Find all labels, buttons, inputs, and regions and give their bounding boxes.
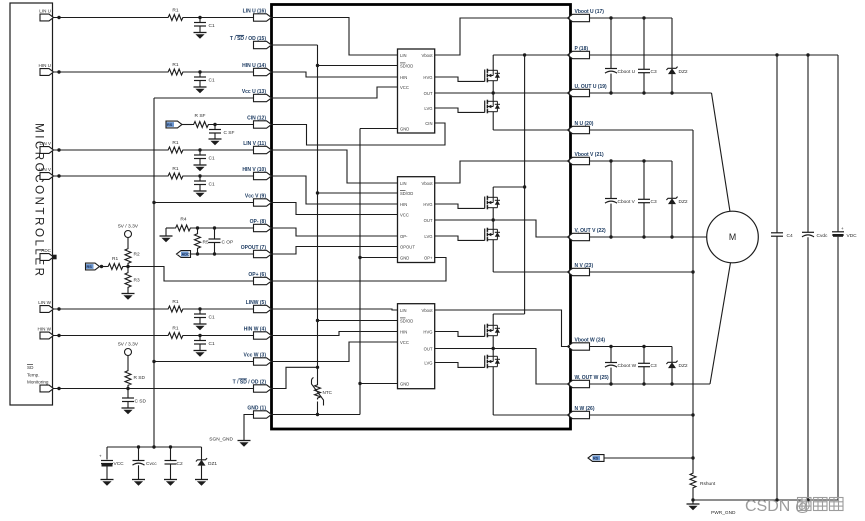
wire Rshunt to PWR rail	[692, 490, 694, 501]
svg-text:HIN: HIN	[400, 202, 407, 207]
svg-text:DZ2: DZ2	[679, 199, 688, 205]
junction NTC / GND wire	[316, 413, 319, 416]
svg-text:VCC: VCC	[400, 212, 409, 217]
junction DZ2 V bottom	[670, 235, 673, 238]
IC pin N U (20)	[568, 126, 590, 133]
wire OUT W diagonal to motor	[710, 263, 731, 384]
svg-text:N V (23): N V (23)	[575, 263, 594, 269]
svg-text:OPOUT: OPOUT	[400, 244, 415, 249]
IC pin W, OUT W (25)	[568, 380, 590, 387]
wire RS to R1	[100, 266, 107, 268]
svg-text:C2: C2	[177, 461, 183, 467]
IC pin GND (1)	[254, 411, 272, 418]
ground (VCC cap)	[101, 479, 114, 481]
wire LIN U mcu to R1	[54, 17, 167, 19]
wire RS to R SF	[182, 124, 192, 126]
svg-text:DZ1: DZ1	[208, 461, 217, 467]
junction P/C4	[775, 53, 778, 56]
junction SD bus block V	[316, 191, 319, 194]
wire LINW (5) route	[272, 309, 398, 310]
capacitor C1 (HIN V row)	[199, 176, 201, 181]
svg-text:LIN V (11): LIN V (11)	[243, 141, 266, 147]
driver block U	[398, 49, 435, 133]
wire R1 to pin (HIN V)	[185, 175, 254, 177]
resistor R1 (HIN W row)	[167, 333, 185, 339]
svg-text:Vboot: Vboot	[422, 181, 434, 186]
ground (C2)	[164, 479, 177, 481]
svg-text:GND: GND	[400, 381, 409, 386]
mcu pin SD	[40, 385, 54, 392]
svg-text:R2: R2	[134, 252, 140, 258]
wire LINW mcu to R1	[54, 308, 167, 310]
junction C3 W top	[642, 345, 645, 348]
svg-text:LVG: LVG	[424, 234, 432, 239]
mcu pin LIN U	[40, 14, 54, 21]
svg-text:V, OUT V (22): V, OUT V (22)	[575, 228, 607, 234]
IC pin HIN W (4)	[254, 332, 272, 339]
svg-text:HIN: HIN	[400, 75, 407, 80]
transistor Q5 (W high-side)	[484, 325, 486, 337]
svg-text:Vboot U (17): Vboot U (17)	[575, 9, 605, 15]
wire RS to N bus	[604, 457, 693, 459]
wire LVG W route	[435, 363, 485, 368]
node C SF junction	[213, 123, 216, 126]
junction SD bus block U	[316, 64, 319, 67]
wire LIN V (11) route	[272, 150, 398, 183]
ground SGN_GND	[238, 440, 251, 442]
junction GND bus block W	[358, 382, 361, 385]
ground (C SD)	[122, 407, 135, 409]
svg-text:R1: R1	[172, 326, 178, 332]
wire ADC to OPOUT pin	[191, 253, 254, 255]
capacitor C3 (U)	[643, 18, 645, 69]
junction at mcu pin SD	[57, 387, 60, 390]
wire Q1 source to OUT U	[492, 81, 494, 93]
svg-text:5V / 3.3V: 5V / 3.3V	[118, 342, 139, 348]
svg-text:C3: C3	[651, 363, 657, 369]
node C1 junction (LIN U row)	[198, 16, 201, 19]
wire OUT U diagonal to motor	[712, 93, 731, 212]
svg-text:R1: R1	[172, 299, 178, 305]
wire SD mcu to pin2	[54, 388, 254, 390]
battery VDC	[837, 55, 839, 232]
transistor Q2 (U low-side)	[484, 101, 486, 113]
wire Vcc U pin to bus	[154, 97, 254, 99]
svg-text:PWR_GND: PWR_GND	[711, 510, 736, 516]
junction SD bus / pin2 link	[316, 366, 319, 369]
wire R4 lead to ground	[165, 228, 167, 236]
svg-text:OP+ (6): OP+ (6)	[248, 272, 266, 278]
junction C3 U top	[642, 16, 645, 19]
svg-text:N U (20): N U (20)	[575, 121, 594, 127]
wire supply to R2	[127, 238, 129, 248]
mcu pin HIN W	[40, 332, 54, 339]
svg-text:HIN U (14): HIN U (14)	[242, 63, 266, 69]
IC pin Vboot W (24)	[568, 343, 590, 350]
svg-text:HIN: HIN	[400, 329, 407, 334]
capacitor C SD	[127, 389, 129, 399]
wire SD/OD to block W	[318, 320, 398, 322]
SD/OD bus vertical	[317, 45, 319, 367]
driver block W	[398, 304, 435, 389]
wire SD/OD to block V	[318, 192, 398, 194]
svg-text:LVG: LVG	[424, 360, 432, 365]
wire Vboot U internal	[435, 18, 570, 55]
ground (C1 LINW row)	[194, 323, 207, 325]
svg-text:VDC: VDC	[847, 233, 858, 239]
svg-text:DZ2: DZ2	[679, 363, 688, 369]
node R5 bottom junction	[196, 252, 199, 255]
junction GND bus block V	[358, 256, 361, 259]
wire Q6 source to N W	[492, 367, 494, 415]
IC pin P (18)	[568, 51, 590, 58]
junction at mcu pin LIN V	[57, 148, 60, 151]
overline SD (T / SD / OD (15))	[236, 34, 244, 36]
capacitor C1 (LINW row)	[199, 309, 201, 314]
mcu pin LIN W	[40, 306, 54, 313]
junction rail/Vcc bus	[152, 445, 155, 448]
wire LVG V route	[435, 236, 485, 240]
resistor R4	[174, 225, 192, 231]
wire P (18) rail	[590, 54, 839, 56]
IC pin OP+ (6)	[254, 277, 272, 284]
svg-text:R1: R1	[172, 8, 178, 14]
svg-text:R5: R5	[203, 240, 209, 246]
ground (Cvcc)	[132, 479, 145, 481]
mcu pin HIN V	[40, 173, 54, 180]
IC pin Vcc V (9)	[254, 199, 272, 206]
junction C3 V bottom	[642, 235, 645, 238]
svg-text:C3: C3	[651, 69, 657, 75]
resistor R SD	[125, 369, 131, 387]
wire HIN U (14) route	[272, 72, 398, 77]
wire GND bus to block V	[360, 257, 398, 259]
IC pin OPOUT (7)	[254, 250, 272, 257]
svg-text:Vboot W (24): Vboot W (24)	[575, 338, 606, 344]
junction N/RS	[691, 456, 694, 459]
node C1 junction (HIN W row)	[198, 334, 201, 337]
IC pin N V (23)	[568, 268, 590, 275]
svg-text:HIN W: HIN W	[37, 327, 51, 332]
junction at mcu pin HIN V	[57, 174, 60, 177]
svg-text:R1: R1	[172, 140, 178, 146]
capacitor C OP	[214, 228, 216, 239]
junction PWR/C4	[775, 498, 778, 501]
svg-text:U, OUT U (19): U, OUT U (19)	[575, 84, 608, 90]
wire OUT W internal	[435, 349, 570, 385]
svg-text:HIN U: HIN U	[38, 63, 51, 68]
capacitor C2	[170, 447, 172, 461]
zener diode DZ1	[201, 447, 203, 460]
svg-text:SD/OD: SD/OD	[400, 318, 413, 323]
svg-text:Vcc W (3): Vcc W (3)	[243, 353, 266, 359]
svg-text:Cboot U: Cboot U	[618, 69, 636, 75]
zener diode DZ2 (W)	[671, 347, 673, 363]
capacitor C3 (W)	[643, 347, 645, 364]
junction OUT U node	[492, 91, 495, 94]
resistor R SF	[192, 122, 210, 128]
capacitor VCC (electrolytic)	[106, 447, 108, 460]
wire R1 to pin (HIN U)	[185, 71, 254, 73]
ground (C1 LIN U row)	[194, 32, 207, 34]
svg-text:C3: C3	[651, 199, 657, 205]
supply 5V/3.3V (divider)	[125, 231, 132, 238]
wire R1 to divider node	[125, 266, 129, 268]
zener diode DZ2 (V)	[671, 161, 673, 198]
wire Vcc V pin to bus	[154, 202, 254, 204]
mcu pin ADC	[40, 254, 54, 261]
svg-text:Cboot V: Cboot V	[618, 199, 636, 205]
svg-text:C SD: C SD	[135, 399, 147, 405]
svg-text:C1: C1	[209, 23, 215, 29]
wire Q2 source to N U	[492, 112, 494, 130]
wire R1 to pin (LINW)	[185, 308, 254, 310]
node C1 junction (LINW row)	[198, 307, 201, 310]
junction OUT W node	[492, 347, 495, 350]
wire GND(1) to ground	[244, 415, 254, 441]
wire HVG U route	[435, 77, 485, 81]
svg-text:SD/OD: SD/OD	[400, 191, 413, 196]
node C OP bottom junction	[213, 252, 216, 255]
svg-text:HVG: HVG	[423, 202, 432, 207]
wire OUT U	[590, 92, 712, 94]
IC pin OP- (8)	[254, 224, 272, 231]
connector RS (CIN row)	[166, 121, 182, 128]
node RS junction	[100, 265, 103, 268]
junction Vcc bus / Vcc V	[152, 201, 155, 204]
junction at mcu pin LIN U	[57, 16, 60, 19]
svg-text:LIN V: LIN V	[40, 141, 52, 146]
junction SD bus block W	[316, 319, 319, 322]
svg-text:Vboot: Vboot	[422, 308, 434, 313]
svg-text:R1: R1	[172, 62, 178, 68]
IC pin Vcc W (3)	[254, 358, 272, 365]
wire Q5 source to OUT W	[492, 336, 494, 349]
svg-text:Vboot: Vboot	[422, 53, 434, 58]
wire LIN U (16) route	[272, 18, 398, 56]
junction N/W	[691, 413, 694, 416]
resistor R1 (LINW row)	[167, 306, 185, 312]
wire R1 to pin (LIN U)	[185, 17, 254, 19]
svg-text:ADC: ADC	[41, 248, 51, 253]
junction at mcu pin LIN W	[57, 307, 60, 310]
junction PWR rail	[691, 498, 694, 501]
wire LIN V mcu to R1	[54, 149, 167, 151]
junction DZ2 W bottom	[670, 382, 673, 385]
junction DZ2 U bottom	[670, 91, 673, 94]
svg-text:LIN: LIN	[400, 53, 407, 58]
svg-text:T / SD / OD (2): T / SD / OD (2)	[233, 380, 267, 386]
svg-text:LINW (5): LINW (5)	[246, 300, 267, 306]
node C OP top junction	[213, 226, 216, 229]
svg-text:R SD: R SD	[134, 375, 146, 381]
wire OP- (8) route	[272, 228, 398, 236]
svg-text:LIN U: LIN U	[39, 9, 51, 14]
wire GND bus to block W	[360, 383, 398, 385]
IC pin T / SD / OD (15)	[254, 41, 272, 48]
wire Vcc V (9) route	[272, 203, 398, 215]
junction at mcu pin HIN W	[57, 334, 60, 337]
svg-text:OP- (8): OP- (8)	[250, 219, 267, 225]
svg-text:C SF: C SF	[224, 130, 235, 136]
svg-text:DZ2: DZ2	[679, 69, 688, 75]
svg-text:OP+: OP+	[424, 255, 433, 260]
wire Q4 drain	[492, 220, 494, 229]
wire HIN W mcu to R1	[54, 335, 167, 337]
resistor R1 (HIN V row)	[167, 173, 185, 179]
svg-text:P (18): P (18)	[575, 46, 589, 52]
wire Vboot W internal	[435, 310, 570, 347]
transistor Q6 (W low-side)	[484, 356, 486, 368]
svg-text:W, OUT W (25): W, OUT W (25)	[575, 375, 610, 381]
capacitor C1 (HIN W row)	[199, 336, 201, 341]
IC pin LIN U (16)	[254, 14, 272, 21]
IC pin U, OUT U (19)	[568, 89, 590, 96]
capacitor Cboot V	[610, 161, 612, 199]
svg-text:R3: R3	[134, 278, 140, 284]
svg-text:CIN: CIN	[425, 121, 432, 126]
connector ADC (OPOUT row)	[177, 251, 191, 258]
svg-text:VCC: VCC	[400, 340, 409, 345]
IC pin Vboot U (17)	[568, 14, 590, 21]
wire HIN V mcu to R1	[54, 175, 167, 177]
wire PWR rail	[693, 499, 838, 501]
svg-text:NTC: NTC	[323, 390, 333, 395]
resistor R1 (divider)	[107, 264, 125, 270]
svg-text:Temp.: Temp.	[27, 373, 40, 378]
svg-text:C1: C1	[209, 315, 215, 321]
driver block V	[398, 177, 435, 263]
Vcc bus vertical	[153, 98, 155, 447]
wire N V	[590, 271, 694, 273]
wire supply to R SD	[127, 356, 129, 370]
node R5 top junction	[196, 226, 199, 229]
wire Q1 drain	[492, 55, 494, 70]
wire Vcc U (13) route	[272, 87, 398, 98]
svg-text:LIN U (16): LIN U (16)	[243, 9, 267, 15]
node C1 junction (LIN V row)	[198, 148, 201, 151]
junction C3 W bottom	[642, 382, 645, 385]
capacitor C4	[776, 55, 778, 233]
junction Cboot W top	[609, 345, 612, 348]
wire Vboot V top rail	[590, 160, 673, 162]
svg-text:LIN: LIN	[400, 308, 407, 313]
svg-text:VCC: VCC	[400, 85, 409, 90]
connector RS (divider row)	[86, 263, 100, 270]
svg-text:RS: RS	[593, 457, 599, 461]
IC pin N W (26)	[568, 411, 590, 418]
svg-text:+: +	[99, 454, 102, 459]
wire Vboot U top rail	[590, 17, 673, 19]
IC pin Vboot V (21)	[568, 157, 590, 164]
svg-text:R SF: R SF	[195, 113, 206, 119]
svg-text:OPOUT (7): OPOUT (7)	[241, 245, 267, 251]
junction R SD / SD wire	[126, 387, 129, 390]
svg-text:SD/OD: SD/OD	[400, 63, 413, 68]
wire OUT V internal	[435, 220, 570, 237]
svg-text:CIN (12): CIN (12)	[247, 116, 266, 122]
wire N W	[590, 414, 694, 416]
watermark glyphs	[798, 498, 812, 511]
svg-text:ADC: ADC	[182, 253, 190, 257]
svg-text:GND: GND	[400, 255, 409, 260]
N bus vertical	[692, 130, 694, 472]
motor M	[707, 211, 759, 263]
ground (C1 HIN U row)	[194, 86, 207, 88]
svg-text:C1: C1	[209, 156, 215, 162]
junction Cboot U top	[609, 16, 612, 19]
svg-text:GND: GND	[400, 126, 409, 131]
GND bus vertical	[359, 129, 361, 415]
svg-text:OUT: OUT	[424, 218, 433, 223]
wire N W internal	[493, 414, 570, 416]
wire OUT W	[590, 383, 711, 385]
IC pin V, OUT V (22)	[568, 233, 590, 240]
transistor Q4 (V low-side)	[484, 229, 486, 241]
svg-text:N W (26): N W (26)	[575, 406, 595, 412]
node C1 junction (HIN U row)	[198, 70, 201, 73]
wire OUT V to motor	[590, 236, 707, 238]
junction Cboot W bottom	[609, 382, 612, 385]
svg-text:HIN V (10): HIN V (10)	[242, 167, 266, 173]
supply 5V/3.3V (SD)	[125, 349, 132, 356]
capacitor C3 (V)	[643, 161, 645, 199]
wire N U	[590, 129, 694, 131]
capacitor Cvdc	[807, 55, 809, 232]
svg-text:Vboot V (21): Vboot V (21)	[575, 152, 605, 158]
wire HVG W route	[435, 332, 485, 337]
ground (C1 HIN W row)	[194, 350, 207, 352]
wire Q5 drain	[492, 314, 494, 325]
wire R4 to OP- pin	[192, 227, 254, 229]
wire T/SD/OD (15) route	[272, 44, 318, 46]
junction Cboot V bottom	[609, 235, 612, 238]
wire LVG U route	[435, 108, 485, 112]
wire R1 to pin (LIN V)	[185, 149, 254, 151]
svg-text:GND (1): GND (1)	[247, 406, 266, 412]
svg-text:Cvcc: Cvcc	[146, 461, 157, 467]
wire R2 to node	[127, 265, 129, 271]
svg-text:C4: C4	[787, 233, 793, 239]
junction P bus / rail U	[523, 53, 526, 56]
svg-text:HVG: HVG	[423, 329, 432, 334]
node divider junction	[126, 265, 129, 268]
wire Q4 source to N V	[492, 240, 494, 272]
wire HVG V route	[435, 204, 485, 208]
IC pin CIN (12)	[254, 121, 272, 128]
junction Cboot U bottom	[609, 91, 612, 94]
resistor R1 (HIN U row)	[167, 69, 185, 75]
svg-text:R4: R4	[180, 217, 186, 223]
junction P bus / rail V	[523, 185, 526, 188]
overline SD (T / SD / OD (2))	[239, 378, 247, 380]
resistor R1 (LIN V row)	[167, 147, 185, 153]
wire drain rail V	[493, 186, 524, 188]
svg-text:HVG: HVG	[423, 75, 432, 80]
svg-text:LVG: LVG	[424, 106, 432, 111]
wire HIN W (4) route	[272, 332, 398, 336]
junction C3 U bottom	[642, 91, 645, 94]
wire drain rail W	[493, 313, 524, 315]
resistor Rshunt	[690, 472, 696, 490]
svg-text:OUT: OUT	[424, 346, 433, 351]
svg-text:C1: C1	[209, 78, 215, 84]
svg-text:C1: C1	[209, 341, 215, 347]
svg-text:Cvdc: Cvdc	[817, 233, 829, 239]
junction P/Cvdc	[806, 53, 809, 56]
zener diode DZ2 (U)	[671, 18, 673, 68]
capacitor Cvcc	[138, 447, 140, 461]
